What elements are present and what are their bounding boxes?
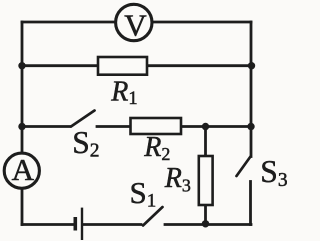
svg-text:R2: R2 (143, 132, 170, 164)
wire S2 row left (22, 125, 70, 128)
svg-text:R1: R1 (110, 76, 137, 109)
ammeter A (4, 152, 39, 188)
svg-text:A: A (12, 152, 35, 187)
wire R1 row right (147, 64, 251, 67)
battery: long thin plate (81, 208, 83, 240)
resistor R1 (98, 57, 147, 75)
wire R3 top stub (204, 127, 207, 157)
voltmeter V (116, 4, 152, 42)
wire top-right segment (153, 21, 251, 24)
svg-text:V: V (124, 7, 147, 42)
wire left vertical upper (21, 22, 24, 153)
node left S2 row (18, 123, 25, 130)
node right R1 row (248, 62, 255, 69)
switch S1 (143, 207, 163, 226)
svg-text:S1: S1 (130, 175, 157, 212)
wire right vertical upper (250, 22, 253, 127)
node bottom of R3 (202, 220, 209, 227)
resistor R3 (199, 156, 213, 205)
wire battery to S1 (84, 223, 142, 226)
wire left vertical lower (21, 189, 24, 225)
wire R1 row left (22, 64, 98, 67)
battery: short thick plate (74, 217, 78, 231)
node top of R3 (202, 123, 209, 130)
svg-text:R3: R3 (164, 163, 191, 196)
switch S2 (71, 111, 95, 127)
svg-text:S2: S2 (72, 125, 99, 162)
wire S3 upper stub (250, 127, 253, 157)
node right S2 row (247, 123, 254, 130)
svg-text:S3: S3 (260, 154, 287, 191)
switch S3 (237, 157, 251, 177)
wire S2 to R2 (97, 125, 131, 128)
wire R3 bottom stub (204, 205, 207, 225)
wire R2 to right (181, 125, 251, 128)
wire bottom right segment (165, 223, 251, 226)
wire S3 lower stub (249, 182, 252, 225)
resistor R2 (131, 118, 182, 134)
node left R1 row (18, 62, 25, 69)
wire bottom left to battery (22, 223, 74, 226)
wire top-left segment (22, 21, 115, 24)
